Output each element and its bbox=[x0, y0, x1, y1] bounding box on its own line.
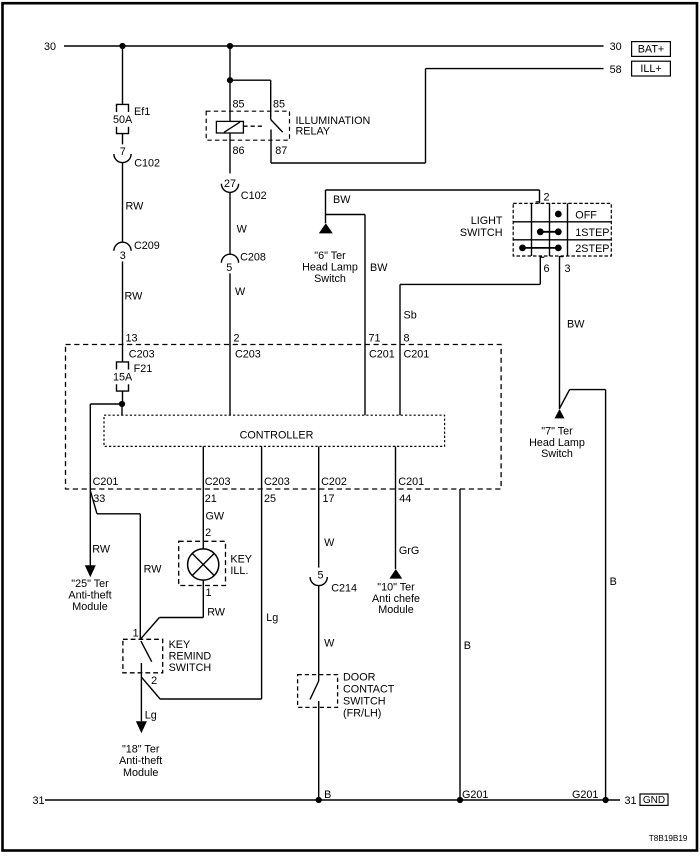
svg-text:Lg: Lg bbox=[145, 710, 157, 722]
svg-text:C203: C203 bbox=[264, 476, 290, 488]
svg-text:"7" Ter: "7" Ter bbox=[541, 425, 573, 437]
svg-text:RW: RW bbox=[126, 201, 145, 213]
svg-text:Switch: Switch bbox=[314, 273, 346, 285]
svg-text:Sb: Sb bbox=[404, 309, 417, 321]
svg-text:RW: RW bbox=[207, 607, 226, 619]
svg-text:86: 86 bbox=[233, 145, 245, 157]
svg-text:GrG: GrG bbox=[399, 545, 419, 557]
svg-text:C202: C202 bbox=[321, 476, 347, 488]
svg-text:W: W bbox=[235, 286, 246, 298]
svg-text:RELAY: RELAY bbox=[296, 126, 331, 138]
svg-text:1STEP: 1STEP bbox=[575, 227, 609, 239]
svg-text:B: B bbox=[610, 576, 617, 588]
svg-text:Head Lamp: Head Lamp bbox=[302, 261, 358, 273]
svg-text:2: 2 bbox=[151, 675, 157, 687]
svg-text:25: 25 bbox=[264, 493, 276, 505]
svg-text:2: 2 bbox=[205, 527, 211, 539]
svg-text:7: 7 bbox=[120, 146, 126, 158]
svg-text:DOOR: DOOR bbox=[343, 671, 376, 683]
svg-text:8: 8 bbox=[404, 333, 410, 345]
svg-text:Switch: Switch bbox=[541, 448, 573, 460]
svg-text:RW: RW bbox=[144, 564, 163, 576]
svg-text:15A: 15A bbox=[113, 372, 133, 384]
svg-text:RW: RW bbox=[125, 291, 144, 303]
svg-text:1: 1 bbox=[133, 627, 139, 639]
svg-text:2: 2 bbox=[544, 192, 550, 204]
svg-text:C102: C102 bbox=[241, 190, 267, 202]
svg-text:Anti-theft: Anti-theft bbox=[119, 755, 162, 767]
svg-text:CONTROLLER: CONTROLLER bbox=[240, 429, 314, 441]
svg-text:Module: Module bbox=[72, 601, 107, 613]
svg-text:Module: Module bbox=[123, 767, 158, 779]
svg-text:44: 44 bbox=[399, 493, 411, 505]
svg-text:"18" Ter: "18" Ter bbox=[122, 744, 160, 756]
svg-text:50A: 50A bbox=[113, 114, 133, 126]
svg-text:30: 30 bbox=[610, 41, 622, 53]
svg-text:Module: Module bbox=[378, 604, 413, 616]
svg-text:SWITCH: SWITCH bbox=[343, 695, 386, 707]
svg-text:27: 27 bbox=[224, 178, 236, 190]
svg-text:17: 17 bbox=[323, 493, 335, 505]
svg-text:BW: BW bbox=[370, 262, 388, 274]
svg-text:C201: C201 bbox=[93, 476, 119, 488]
svg-text:2: 2 bbox=[234, 333, 240, 345]
svg-text:2STEP: 2STEP bbox=[575, 243, 609, 255]
svg-text:GW: GW bbox=[206, 511, 225, 523]
svg-text:RW: RW bbox=[92, 544, 111, 556]
svg-text:C203: C203 bbox=[129, 349, 155, 361]
svg-text:C102: C102 bbox=[134, 158, 160, 170]
svg-text:W: W bbox=[324, 638, 335, 650]
svg-text:C203: C203 bbox=[235, 349, 261, 361]
svg-text:5: 5 bbox=[226, 262, 232, 274]
svg-text:(FR/LH): (FR/LH) bbox=[343, 707, 381, 719]
svg-text:T8B19B19: T8B19B19 bbox=[649, 834, 688, 843]
svg-text:C201: C201 bbox=[398, 476, 424, 488]
svg-text:3: 3 bbox=[565, 263, 571, 275]
svg-text:Anti chefe: Anti chefe bbox=[372, 593, 420, 605]
svg-text:C201: C201 bbox=[404, 349, 430, 361]
svg-text:85: 85 bbox=[273, 99, 285, 111]
svg-text:B: B bbox=[324, 789, 331, 801]
svg-text:71: 71 bbox=[369, 333, 381, 345]
svg-text:BAT+: BAT+ bbox=[638, 44, 665, 56]
svg-text:F21: F21 bbox=[134, 363, 153, 375]
svg-text:Anti-theft: Anti-theft bbox=[68, 590, 111, 602]
svg-text:G201: G201 bbox=[462, 789, 488, 801]
svg-text:30: 30 bbox=[44, 41, 56, 53]
svg-text:C209: C209 bbox=[134, 240, 160, 252]
svg-text:C201: C201 bbox=[369, 349, 395, 361]
svg-text:SWITCH: SWITCH bbox=[460, 227, 503, 239]
svg-text:B: B bbox=[464, 640, 471, 652]
svg-text:Ef1: Ef1 bbox=[134, 106, 150, 118]
svg-text:21: 21 bbox=[205, 493, 217, 505]
svg-text:"25" Ter: "25" Ter bbox=[71, 578, 109, 590]
svg-text:31: 31 bbox=[32, 795, 44, 807]
svg-text:BW: BW bbox=[567, 318, 585, 330]
svg-text:C203: C203 bbox=[205, 476, 231, 488]
svg-text:W: W bbox=[324, 537, 335, 549]
svg-text:1: 1 bbox=[206, 587, 212, 599]
svg-text:ILL.: ILL. bbox=[230, 565, 248, 577]
svg-text:BW: BW bbox=[333, 194, 351, 206]
svg-text:REMIND: REMIND bbox=[169, 650, 212, 662]
svg-text:6: 6 bbox=[544, 263, 550, 275]
svg-text:KEY: KEY bbox=[230, 554, 252, 566]
svg-text:87: 87 bbox=[275, 145, 287, 157]
svg-text:31: 31 bbox=[625, 795, 637, 807]
svg-text:Lg: Lg bbox=[266, 612, 278, 624]
svg-text:OFF: OFF bbox=[575, 210, 597, 222]
svg-text:GND: GND bbox=[643, 795, 665, 806]
svg-text:SWITCH: SWITCH bbox=[169, 662, 212, 674]
svg-text:C214: C214 bbox=[331, 582, 357, 594]
svg-text:C208: C208 bbox=[240, 252, 266, 264]
svg-text:"10" Ter: "10" Ter bbox=[377, 581, 415, 593]
svg-text:58: 58 bbox=[610, 64, 622, 76]
svg-text:G201: G201 bbox=[572, 789, 598, 801]
svg-text:CONTACT: CONTACT bbox=[343, 683, 395, 695]
svg-text:Head Lamp: Head Lamp bbox=[529, 437, 585, 449]
svg-text:13: 13 bbox=[126, 333, 138, 345]
svg-text:KEY: KEY bbox=[169, 639, 191, 651]
svg-text:3: 3 bbox=[120, 250, 126, 262]
svg-text:LIGHT: LIGHT bbox=[471, 215, 503, 227]
svg-text:33: 33 bbox=[93, 493, 105, 505]
svg-text:5: 5 bbox=[317, 569, 323, 581]
svg-text:"6" Ter: "6" Ter bbox=[314, 250, 346, 262]
svg-text:W: W bbox=[237, 224, 248, 236]
svg-text:ILL+: ILL+ bbox=[640, 63, 661, 75]
svg-text:85: 85 bbox=[233, 99, 245, 111]
